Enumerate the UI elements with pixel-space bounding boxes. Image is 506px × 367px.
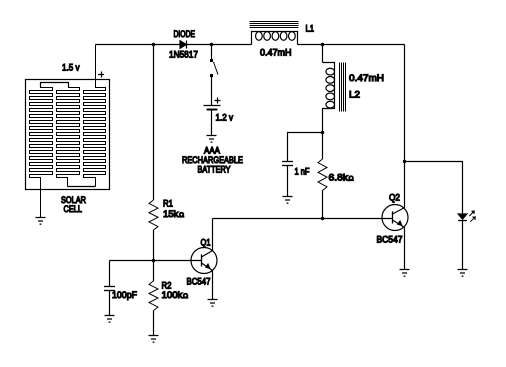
solar cell grid column 3: [84, 45, 106, 187]
wire battery to ground: [211, 111, 213, 136]
svg-text:100pF: 100pF: [112, 290, 137, 301]
wire top rail left segment: [96, 44, 252, 46]
switch S1: [210, 59, 218, 77]
wire 1nF to ground: [287, 166, 289, 197]
resistor R2 100k: [149, 281, 158, 311]
ground (Q2 emitter): [400, 270, 410, 277]
svg-text:6.8k: 6.8k: [329, 173, 349, 184]
capacitor C1 100pF: [104, 287, 115, 291]
resistor R1 15k: [149, 200, 158, 230]
wire battery branch upper: [211, 45, 213, 60]
wire top rail to R1: [153, 45, 155, 201]
svg-text:R1: R1: [163, 199, 173, 210]
wire top rail to L2: [322, 45, 324, 63]
capacitor C2 1nF: [282, 162, 293, 166]
svg-text:Ω: Ω: [349, 176, 354, 183]
wire junction to R2: [153, 261, 155, 282]
wire Q1 collector to mid rail: [212, 219, 214, 251]
inductor L1 core lines: [250, 22, 299, 28]
wire R2 to ground: [153, 311, 155, 336]
ground (1nF cap): [283, 197, 293, 204]
svg-text:1N5817: 1N5817: [169, 50, 198, 61]
svg-text:Ω: Ω: [179, 212, 184, 219]
node junction L2 bottom / 1nF branch: [321, 131, 324, 134]
svg-text:15k: 15k: [163, 209, 179, 220]
wire R1 to base junction: [153, 230, 155, 261]
node junction top rail / battery branch: [210, 43, 213, 46]
svg-text:1.5 v: 1.5 v: [62, 63, 80, 74]
ground (LED): [458, 270, 468, 277]
svg-text:BC547: BC547: [377, 235, 403, 246]
node junction right vertical / LED branch: [403, 160, 406, 163]
resistor R3 6.8k: [318, 159, 327, 191]
wire junction to 6.8k resistor: [322, 133, 324, 160]
wire switch to battery: [211, 77, 213, 106]
wire right vertical top rail to Q2 collector: [404, 45, 406, 208]
svg-text:AAA: AAA: [204, 146, 220, 156]
svg-text:RECHARGEABLE: RECHARGEABLE: [182, 155, 243, 165]
svg-text:BC547: BC547: [187, 277, 211, 288]
wire Q2 emitter to ground: [404, 228, 406, 270]
battery B1 1.2v plates: [204, 106, 221, 110]
svg-text:L2: L2: [349, 90, 360, 101]
ground (Q1 emitter): [208, 300, 218, 307]
wire LED branch: [405, 162, 463, 214]
svg-text:1.2 v: 1.2 v: [216, 113, 234, 124]
wire LED to ground: [462, 221, 464, 270]
solar cell top bridge connector: [41, 83, 69, 88]
svg-text:0.47mH: 0.47mH: [349, 73, 384, 84]
node junction base rail / R2: [152, 259, 155, 262]
wire base rail to 100pF cap: [109, 261, 111, 287]
wire 100pF to ground: [109, 291, 111, 316]
wire junction to 1nF cap: [288, 133, 323, 162]
node junction top rail / L2 branch: [321, 43, 324, 46]
diode D1 1N5817: [180, 41, 187, 49]
ground (100pF cap): [105, 316, 115, 323]
node junction top rail / R1 branch: [152, 43, 155, 46]
solar cell grid column 1: [30, 83, 53, 218]
transistor Q1 BC547: [191, 248, 217, 274]
ground (battery): [207, 136, 217, 143]
LED D2: [458, 210, 476, 221]
svg-text:Q1: Q1: [201, 238, 211, 248]
wire base rail (100pF to Q1 base): [110, 260, 202, 262]
inductor L2 winding: [323, 63, 335, 133]
inductor L1 winding: [252, 32, 298, 45]
node junction mid rail / 6.8k: [321, 217, 324, 220]
svg-text:Ω: Ω: [183, 293, 188, 300]
solar cell + polarity mark: [98, 72, 104, 78]
wire mid rail Q1 collector to Q2 base: [213, 218, 393, 220]
wire top rail right segment: [298, 44, 405, 46]
svg-text:Q2: Q2: [389, 193, 400, 204]
svg-text:0.47mH: 0.47mH: [260, 48, 292, 59]
ground (solar cell): [36, 218, 46, 225]
transistor Q2 BC547: [382, 205, 408, 231]
solar cell panel outline: [26, 80, 110, 190]
battery + polarity mark: [215, 98, 221, 104]
wire Q1 emitter to ground: [212, 271, 214, 300]
svg-text:L1: L1: [306, 24, 315, 34]
svg-text:DIODE: DIODE: [174, 29, 196, 39]
svg-text:CELL: CELL: [64, 204, 83, 214]
svg-text:1 nF: 1 nF: [295, 167, 310, 177]
solar cell bottom bridge connector: [68, 186, 96, 188]
svg-text:100k: 100k: [162, 290, 183, 301]
svg-text:BATTERY: BATTERY: [198, 165, 231, 175]
inductor L2 core lines: [340, 63, 346, 112]
wire 6.8k to mid rail: [322, 191, 324, 219]
solar cell grid column 2: [57, 83, 80, 187]
ground (R2): [149, 336, 159, 343]
